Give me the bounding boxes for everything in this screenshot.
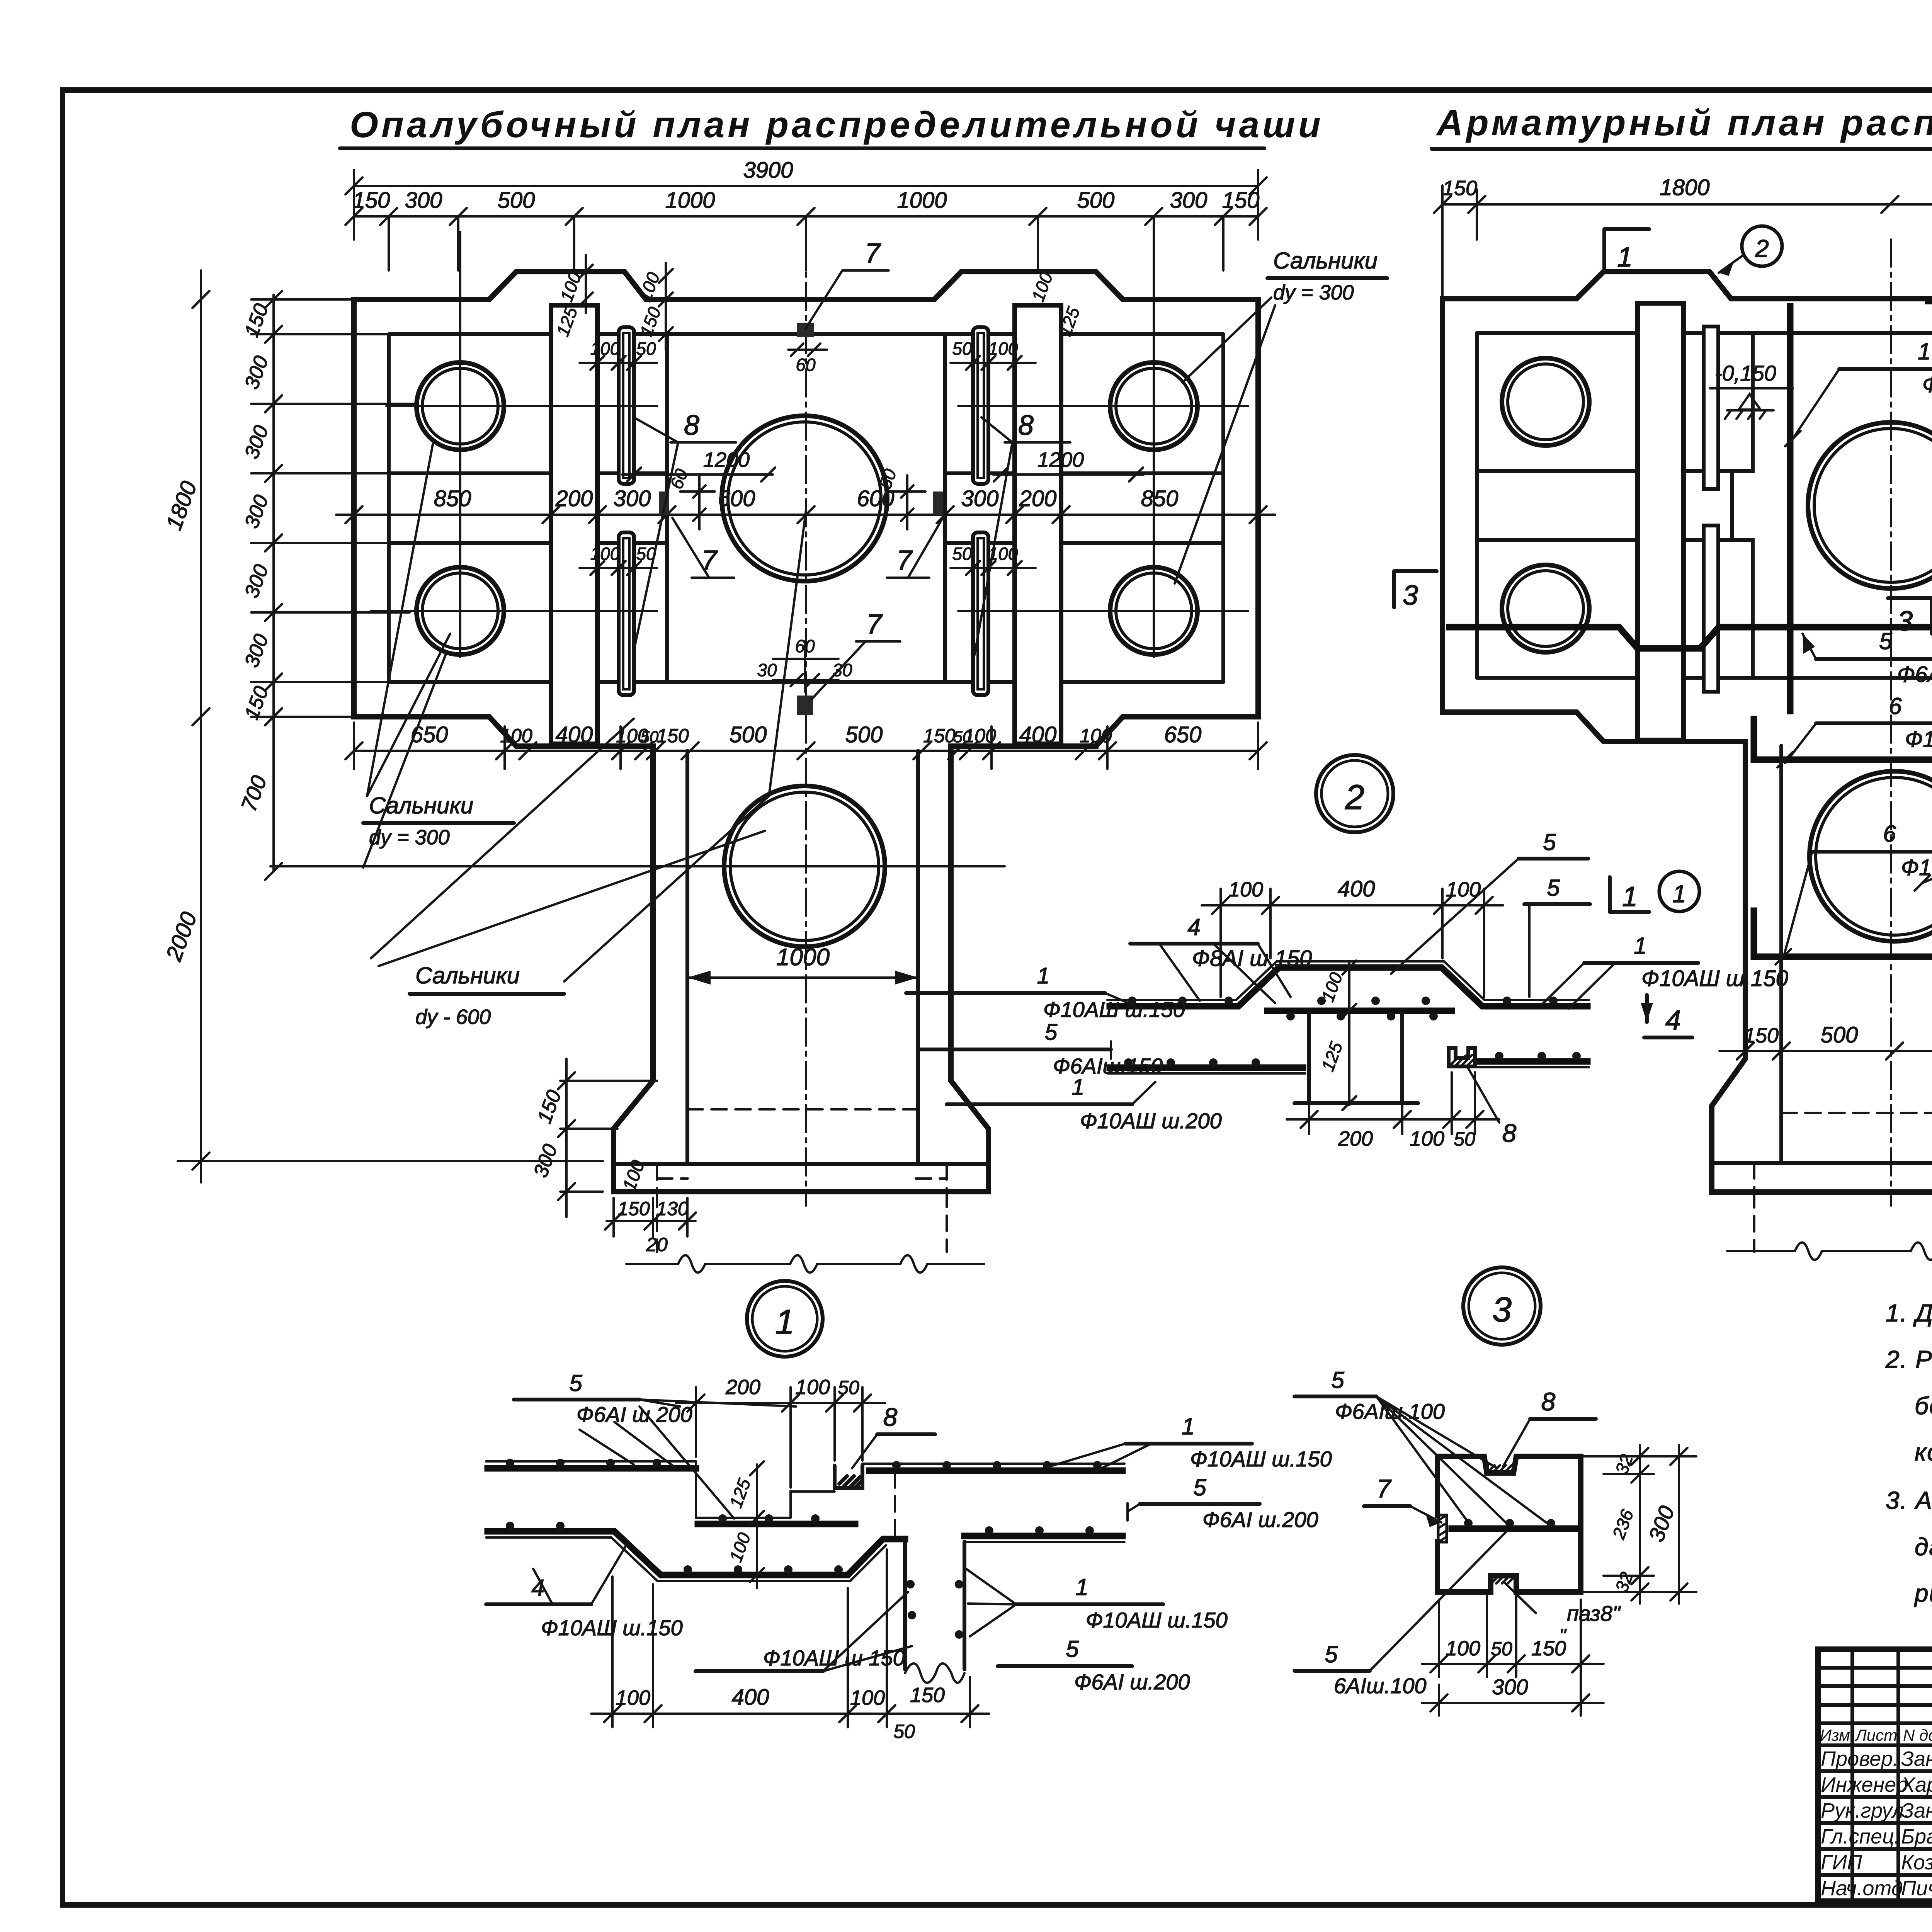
svg-text:1: 1 <box>775 1303 794 1342</box>
svg-text:Арматурный план распределите: Арматурный план распределительной чаши <box>1436 102 1932 143</box>
detail 2 bottom dims 200/100/50 <box>1287 1072 1499 1150</box>
svg-text:20: 20 <box>646 1234 668 1255</box>
lower wing rectangles <box>389 541 1223 545</box>
callout 7 top centre <box>806 238 889 328</box>
detail 2 top surface line <box>1107 961 1589 1000</box>
detail 3 top notch hatch <box>1487 1464 1514 1473</box>
svg-text:100: 100 <box>616 1686 650 1709</box>
svg-text:150: 150 <box>1442 177 1477 200</box>
gland opening circle upper-left dy300 <box>417 362 504 450</box>
svg-text:150: 150 <box>353 188 390 213</box>
notes text <box>1885 1299 1932 1607</box>
svg-text:5: 5 <box>569 1370 582 1396</box>
detail 1 top dims 200/100/50 <box>676 1376 885 1488</box>
detail 3 right dims 32/236/32/300 <box>1581 1445 1696 1604</box>
right stem outer walls <box>1712 742 1932 1192</box>
detail 1 label 5 f6AI s200 top-left <box>514 1370 796 1519</box>
svg-text:Зантберг: Зантберг <box>1901 1799 1932 1822</box>
svg-text:850: 850 <box>434 486 471 511</box>
bottom dimension chain 650-100-400-100-50-150-500-500-150-50-100-400-100-650 <box>345 722 1267 769</box>
svg-text:60: 60 <box>795 636 815 656</box>
callout 8 left with two leaders <box>633 410 736 655</box>
mid notch square left with 60 dim <box>659 466 715 529</box>
central big opening dy600 <box>722 416 887 581</box>
svg-text:1000: 1000 <box>897 188 947 213</box>
right stem circle dy600 <box>1810 771 1932 941</box>
detail 1 top slab left <box>486 1459 696 1468</box>
detail 2 bottom slab left <box>1107 1058 1305 1073</box>
svg-text:50: 50 <box>838 1377 859 1398</box>
wall strip right (200 wide) <box>1015 305 1061 744</box>
svg-text:4: 4 <box>1187 914 1200 940</box>
svg-text:850: 850 <box>1141 486 1179 511</box>
svg-text:1: 1 <box>1182 1413 1194 1439</box>
svg-text:ГИП: ГИП <box>1821 1851 1862 1874</box>
stem circle centerline <box>270 865 1005 867</box>
stem inner wall lines <box>687 751 918 1164</box>
svg-text:1: 1 <box>1075 1574 1088 1600</box>
svg-text:100: 100 <box>590 338 620 359</box>
svg-text:200: 200 <box>1338 1127 1373 1150</box>
svg-text:Ф10АШ ш.150: Ф10АШ ш.150 <box>1905 727 1932 752</box>
detail 2 label 4 f8AI s150 <box>1130 914 1312 1003</box>
central chamber walls <box>667 334 945 682</box>
svg-text:5: 5 <box>1193 1475 1206 1500</box>
gland opening circle lower-right dy300 <box>1110 567 1197 655</box>
bubble 2 with leader <box>1719 226 1782 276</box>
gland strips right plan (4 thin) <box>1704 327 1932 692</box>
svg-text:кости принять по пояснитель: кости принять по пояснительной записке. <box>1915 1438 1932 1466</box>
svg-text:130: 130 <box>656 1198 689 1219</box>
dim 1000 stem interior <box>687 944 918 985</box>
svg-text:2. Распределительную чашу вы: 2. Распределительную чашу выполнять из <box>1885 1345 1932 1373</box>
svg-text:100: 100 <box>964 725 996 747</box>
svg-text:60: 60 <box>796 355 816 375</box>
svg-text:Ф10АШ ш.200: Ф10АШ ш.200 <box>1080 1109 1222 1133</box>
right stem break line <box>1727 1243 1932 1260</box>
dim 1200 right <box>993 448 1144 481</box>
svg-text:300: 300 <box>405 188 442 213</box>
svg-text:1000: 1000 <box>776 944 830 971</box>
svg-text:1: 1 <box>1634 933 1646 959</box>
svg-text:N докум.: N докум. <box>1903 1726 1932 1744</box>
section mark 4 left of stem <box>1641 995 1692 1037</box>
detail 1 label 1 f10AIII s150 top right <box>1043 1413 1332 1472</box>
right plan inner edge <box>1477 333 1932 678</box>
detail 2 labels 5 upper right <box>1391 829 1590 997</box>
svg-text:200: 200 <box>725 1376 760 1399</box>
outer left chain 1800 / 2000 <box>161 270 603 1182</box>
svg-text:1: 1 <box>1617 242 1633 273</box>
detail 1 bottom slab right <box>964 1526 1124 1542</box>
label 6 f10AIII s150 lower <box>1776 821 1932 964</box>
right plan centerline vertical <box>1890 240 1892 1206</box>
svg-text:650: 650 <box>1164 722 1202 747</box>
right wall strip left <box>1638 303 1684 740</box>
svg-text:5: 5 <box>1547 875 1560 901</box>
svg-text:500: 500 <box>845 722 883 747</box>
stem outer walls (left plan) <box>614 746 988 1192</box>
gland strip lower-left <box>619 532 634 695</box>
detail 3 bottom dims 100/50/150 and 300 <box>1422 1596 1604 1716</box>
dim chain 150-1800-1800-150 right plan <box>1434 175 1932 298</box>
rebar 3 vertical heavy right with top hook <box>1928 301 1932 711</box>
detail 2 middle bar 5 <box>1267 1011 1452 1020</box>
svg-text:400: 400 <box>732 1685 769 1710</box>
small dims 125 right strip <box>1027 269 1083 339</box>
svg-text:Рук.грул.: Рук.грул. <box>1821 1799 1910 1822</box>
svg-text:100: 100 <box>1080 725 1112 747</box>
dim 3900 (left plan overall width) <box>345 158 1267 240</box>
svg-text:50: 50 <box>952 544 972 564</box>
svg-text:50: 50 <box>641 728 659 746</box>
svg-text:Ф10АШ ш.150: Ф10АШ ш.150 <box>1190 1447 1332 1471</box>
svg-text:7: 7 <box>866 609 883 640</box>
svg-text:50: 50 <box>1454 1128 1475 1150</box>
left vertical chain 150/300x5/150 <box>236 291 417 880</box>
svg-text:dy = 300: dy = 300 <box>1273 281 1354 304</box>
section mark 1 top <box>1604 229 1649 273</box>
svg-text:Ф10АШ ш.150: Ф10АШ ш.150 <box>1641 966 1788 991</box>
title block signature rows <box>1821 1747 1932 1900</box>
svg-text:Пичахчи: Пичахчи <box>1901 1877 1932 1900</box>
svg-text:30: 30 <box>757 660 777 680</box>
detail 3 label 5 6AI s100 bottom <box>1294 1531 1507 1698</box>
svg-text:8: 8 <box>684 410 699 441</box>
detail 1 wall tee <box>895 1472 964 1683</box>
svg-text:Сальники: Сальники <box>1273 248 1378 274</box>
svg-text:Изм: Изм <box>1820 1726 1850 1744</box>
detail 1 mid rebar <box>698 1514 855 1524</box>
detail 1 label f10AIII s150 centre <box>696 1592 912 1671</box>
detail 3 label 5 f6AI s100 top <box>1294 1367 1550 1526</box>
top centre insert square with 60 dim <box>788 323 827 375</box>
svg-text:1. Данный лист комплектен с: 1. Данный лист комплектен с листами <box>1886 1299 1932 1327</box>
svg-text:100: 100 <box>500 725 532 747</box>
detail 3 label 8 <box>1503 1387 1596 1466</box>
detail 2 top dims 100/400/100 <box>1202 876 1503 997</box>
detail 2 top rebar heavy <box>1110 968 1587 1006</box>
svg-text:200: 200 <box>555 486 593 511</box>
elevation -0.150 <box>1710 361 1793 419</box>
svg-text:100: 100 <box>1410 1127 1444 1150</box>
right plan body outline with bumps <box>1442 272 1932 742</box>
svg-text:100: 100 <box>795 1376 830 1399</box>
svg-text:5: 5 <box>1045 1020 1058 1045</box>
svg-text:150: 150 <box>656 725 689 747</box>
upper wing rectangles <box>389 471 1223 475</box>
detail 2 label 1 f10AIII s150 right <box>1542 933 1788 1009</box>
svg-text:Лист: Лист <box>1854 1726 1897 1744</box>
svg-text:1: 1 <box>1072 1075 1084 1100</box>
svg-text:500: 500 <box>730 722 767 747</box>
svg-text:Ф6АIш.100: Ф6АIш.100 <box>1335 1399 1445 1423</box>
right stem base slab <box>1712 1113 1932 1252</box>
rebar 6 upper bracket in stem <box>1754 719 1932 760</box>
svg-text:300: 300 <box>614 486 651 511</box>
gland strip upper-left <box>619 327 634 484</box>
svg-text:Сальники: Сальники <box>415 963 520 988</box>
svg-text:50: 50 <box>952 338 972 359</box>
gland opening circle lower-left dy300 <box>417 567 504 655</box>
title block grid <box>1818 1649 1932 1901</box>
rebar 1 vertical heavy left <box>1787 306 1794 711</box>
detail bubble 3 <box>1463 1267 1541 1345</box>
svg-text:1000: 1000 <box>665 188 715 213</box>
small dims 100/125/150 near left strip <box>552 255 673 350</box>
svg-text:150: 150 <box>910 1684 945 1707</box>
svg-text:2: 2 <box>1345 778 1364 817</box>
detail 2 left labels 1/5/1 <box>906 963 1185 1022</box>
detail 1 label 5 f6AI s200 lower right <box>998 1636 1190 1694</box>
rebar 5 horizontal heavy with jogs <box>1449 627 1932 648</box>
svg-text:100: 100 <box>988 338 1018 359</box>
svg-text:1: 1 <box>1622 881 1638 912</box>
svg-text:Ф10АШ ш.150: Ф10АШ ш.150 <box>1086 1608 1228 1632</box>
label Сальники dy=300 upper-right <box>1175 248 1387 583</box>
svg-text:1: 1 <box>1037 963 1049 988</box>
svg-text:1: 1 <box>1672 880 1686 908</box>
svg-text:да сальников вырезать по м: да сальников вырезать по месту и прива- <box>1915 1533 1932 1561</box>
svg-text:7: 7 <box>865 238 881 269</box>
svg-text:100: 100 <box>1228 878 1263 901</box>
detail 2 bottom slab right with insert <box>1478 1052 1589 1067</box>
detail 1 label 5 f6AI s200 right <box>1128 1475 1318 1532</box>
dim chain 150-300-500-1000-1000-500-300-150 <box>345 188 1267 270</box>
detail 3 bottom notch <box>1491 1576 1516 1584</box>
centerline vertical left plan <box>805 240 807 1206</box>
stem opening circle dy600 <box>724 786 885 947</box>
svg-text:8: 8 <box>1502 1119 1517 1147</box>
svg-text:50: 50 <box>893 1721 915 1742</box>
svg-text:Браславски: Браславски <box>1901 1825 1932 1848</box>
svg-text:1200: 1200 <box>703 448 750 471</box>
svg-text:150: 150 <box>1744 1024 1779 1047</box>
label Сальники dy=300 lower-left <box>363 444 514 867</box>
svg-text:3. Арматуру днища чаши в м: 3. Арматуру днища чаши в местах прохо- <box>1886 1486 1932 1514</box>
svg-text:7: 7 <box>1377 1474 1392 1503</box>
svg-text:5: 5 <box>1066 1636 1079 1662</box>
svg-text:200: 200 <box>1019 486 1057 511</box>
detail 3 label paz8 <box>1504 1582 1621 1646</box>
detail 2 pedestal <box>1294 1012 1418 1103</box>
svg-text:Харченко: Харченко <box>1900 1773 1932 1796</box>
gland strip upper-right <box>973 327 988 484</box>
svg-text:dy = 300: dy = 300 <box>369 826 450 849</box>
detail 2 hatched insert 8 <box>1449 1048 1475 1066</box>
section mark 1 bottom + bubble <box>1610 871 1699 912</box>
svg-text:Козловская: Козловская <box>1901 1851 1932 1874</box>
svg-text:300: 300 <box>1492 1675 1528 1699</box>
svg-text:1800: 1800 <box>1660 175 1709 200</box>
right stem inner wall lines <box>1781 746 1932 1163</box>
detail 1 label 4 f10AIII s150 left <box>486 1546 683 1640</box>
svg-text:50: 50 <box>1491 1638 1512 1660</box>
svg-text:бетона М-200 , В-4. Бетон п: бетона М-200 , В-4. Бетон по морозостой- <box>1915 1392 1932 1420</box>
svg-text:400: 400 <box>556 722 593 747</box>
right plan central big circle <box>1808 422 1932 588</box>
small dims 100/50 upper pair <box>580 338 657 370</box>
svg-text:600: 600 <box>718 486 755 511</box>
section mark 3 centre <box>1888 598 1932 637</box>
svg-text:5: 5 <box>1879 628 1892 654</box>
stem left small dims 150/300/100 <box>529 1059 657 1217</box>
right plan wing lines lower <box>1477 538 1932 542</box>
svg-text:500: 500 <box>1077 188 1115 213</box>
callout 7 left of big circle <box>672 518 734 578</box>
callout 7 right of big circle <box>887 518 943 578</box>
svg-text:50: 50 <box>636 338 656 359</box>
svg-text:400: 400 <box>1019 722 1057 747</box>
svg-text:Ф6АIш.150: Ф6АIш.150 <box>1053 1054 1163 1078</box>
label 5 f6AI s200 centre <box>1803 628 1932 687</box>
svg-text:400: 400 <box>1338 876 1375 901</box>
label 1 f10AIII s150 <box>1785 338 1932 446</box>
svg-text:3: 3 <box>1492 1291 1512 1329</box>
stem bottom dims 150 130 20 <box>605 1198 696 1255</box>
svg-text:5: 5 <box>1543 829 1556 855</box>
small dims 100/50 lower pair <box>580 544 657 575</box>
detail 3 left hatched strip 7 <box>1438 1515 1447 1542</box>
mid notch square right with 50 dim <box>875 466 943 529</box>
title: reinforcement plan <box>1432 102 1932 149</box>
label 5 f6AI s200 right <box>1915 777 1932 891</box>
title block header row <box>1820 1726 1932 1744</box>
stem bottom break line with squiggles <box>626 1255 984 1273</box>
svg-text:Ф10АШ ш 150: Ф10АШ ш 150 <box>1922 372 1932 397</box>
svg-text:8: 8 <box>1018 410 1034 441</box>
svg-text:6: 6 <box>1889 693 1902 719</box>
left plan body outline with top/bottom bumps <box>354 272 1258 746</box>
svg-text:Провер.: Провер. <box>1821 1747 1898 1770</box>
svg-text:8: 8 <box>1541 1387 1556 1416</box>
svg-text:паз8": паз8" <box>1567 1601 1621 1626</box>
svg-text:500: 500 <box>498 188 535 213</box>
svg-text:150: 150 <box>617 1198 650 1219</box>
svg-text:3: 3 <box>1897 606 1913 637</box>
svg-text:8: 8 <box>883 1403 898 1431</box>
svg-text:рить к корпусу сальника.: рить к корпусу сальника. <box>1914 1579 1932 1607</box>
detail 1 label 1 f10AIII s150 right mid <box>966 1569 1228 1636</box>
svg-text:3900: 3900 <box>743 158 793 183</box>
detail 1 dims 125/100 vertical <box>725 1461 764 1588</box>
callout 8 right with two leaders <box>975 410 1070 655</box>
centerline lower circle row <box>371 610 1248 612</box>
svg-text:4: 4 <box>1665 1005 1681 1036</box>
svg-text:100: 100 <box>1446 1637 1480 1660</box>
small dims mirrored right 50/100 upper <box>951 338 1036 370</box>
detail 1 bottom slab polyline <box>486 1522 905 1581</box>
rebar 6 lower bracket in stem <box>1754 911 1932 957</box>
right plan wing lines upper <box>1477 469 1932 473</box>
svg-text:Инженер: Инженер <box>1821 1773 1908 1796</box>
svg-text:Опалубочный план распределит: Опалубочный план распределительной чаши <box>350 104 1324 145</box>
svg-text:7: 7 <box>701 545 718 576</box>
svg-text:Зантберг: Зантберг <box>1901 1747 1932 1770</box>
svg-text:6АIш.100: 6АIш.100 <box>1334 1673 1427 1698</box>
svg-text:dy - 600: dy - 600 <box>415 1005 491 1029</box>
gland strip lower-right <box>973 532 988 695</box>
detail 3 block outline <box>1437 1456 1581 1592</box>
detail 3 rebar with dots <box>1452 1519 1575 1529</box>
svg-text:Ф10АШ ш 150: Ф10АШ ш 150 <box>763 1646 905 1670</box>
right plan circles <box>1502 358 1589 446</box>
detail 1 top step down <box>696 1461 835 1518</box>
svg-text:150: 150 <box>1222 188 1260 213</box>
svg-text:300: 300 <box>1170 188 1207 213</box>
svg-text:": " <box>1559 1625 1567 1646</box>
svg-text:300: 300 <box>961 486 999 511</box>
mid dimension line 850-200-300-600-600-300-200-850 <box>336 486 1275 523</box>
svg-text:Ф6АI ш.200: Ф6АI ш.200 <box>1202 1507 1318 1532</box>
right stem dim 150/500/500/150 <box>1719 1022 1932 1060</box>
svg-text:6: 6 <box>1883 821 1896 847</box>
svg-text:-0,150: -0,150 <box>1715 361 1776 385</box>
svg-text:2: 2 <box>1755 235 1769 262</box>
svg-text:Ф10АШ ш.150: Ф10АШ ш.150 <box>541 1616 683 1640</box>
svg-text:Ф6АI ш.200: Ф6АI ш.200 <box>1074 1670 1190 1694</box>
svg-text:30: 30 <box>832 660 852 680</box>
svg-text:3: 3 <box>1403 580 1418 611</box>
right plan chamber walls with notches <box>1732 333 1932 678</box>
callout 7 bottom centre <box>811 609 900 699</box>
gland opening circle upper-right dy300 <box>1110 362 1197 450</box>
svg-text:5: 5 <box>1325 1641 1338 1667</box>
centerline upper circle row <box>386 232 1248 657</box>
dim 1200 left <box>622 448 775 481</box>
section mark 3 left <box>1394 571 1437 611</box>
detail 2 label 8 <box>1468 1068 1517 1147</box>
title: formwork plan <box>340 104 1324 148</box>
svg-text:Нач.отд: Нач.отд <box>1821 1877 1903 1900</box>
label Сальники dy.600 <box>371 510 806 1029</box>
small dims mirrored right 50/100 lower <box>951 544 1036 575</box>
svg-text:500: 500 <box>1821 1022 1858 1048</box>
detail 1 label 8 <box>852 1403 935 1468</box>
bottom centre insert square with 60/30/30 dims <box>757 636 852 715</box>
detail 2 dim 100 and 125 vertical <box>1317 961 1356 1110</box>
svg-text:5: 5 <box>1331 1367 1344 1393</box>
stem base slab <box>614 1109 988 1252</box>
detail 3 label 7 <box>1364 1474 1441 1527</box>
detail bubble 1 <box>747 1281 823 1357</box>
svg-text:Ф10АШ ш.150: Ф10АШ ш.150 <box>1043 997 1185 1022</box>
svg-text:Гл.спец.: Гл.спец. <box>1821 1825 1900 1848</box>
svg-text:Ф8АI ш 150: Ф8АI ш 150 <box>1192 946 1312 971</box>
svg-text:100: 100 <box>850 1686 885 1709</box>
svg-text:Ф6АI ш. 200: Ф6АI ш. 200 <box>1897 662 1932 687</box>
svg-text:100: 100 <box>590 544 620 564</box>
svg-text:1200: 1200 <box>1037 448 1084 471</box>
svg-text:650: 650 <box>411 722 448 747</box>
detail 1 hatched pocket 8 <box>835 1466 862 1488</box>
wall strip left (200 wide) <box>551 305 597 744</box>
detail 1 bottom dims 100/400/100/150/50 <box>591 1549 989 1742</box>
detail bubble 2 <box>1316 755 1393 832</box>
detail 1 top slab right <box>862 1461 1124 1471</box>
label 6 f10AIII s150 upper <box>1777 693 1932 767</box>
svg-text:1: 1 <box>1918 338 1930 364</box>
svg-text:150: 150 <box>923 725 956 747</box>
left plan inner edge lines <box>389 334 1223 682</box>
